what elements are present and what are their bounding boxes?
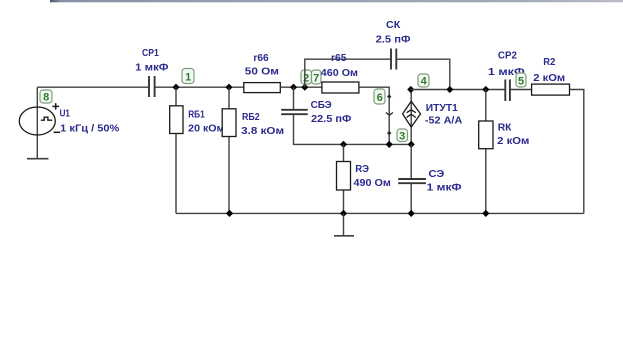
pin marker bottom (ИТУТ1 control)	[387, 131, 391, 136]
node 8 box	[40, 90, 52, 104]
capacitor СР2 plates	[505, 80, 510, 102]
svg-text:1: 1	[185, 71, 191, 83]
svg-text:2: 2	[303, 72, 309, 84]
svg-text:СР1: СР1	[142, 47, 159, 59]
wire: RБ1 branch vertical	[175, 87, 177, 213]
resistor RБ1	[170, 106, 183, 134]
svg-text:3: 3	[399, 130, 405, 142]
junction rail RБ2 dot	[226, 210, 233, 217]
svg-text:СЭ: СЭ	[429, 168, 445, 180]
svg-text:3.8 кОм: 3.8 кОм	[241, 125, 284, 137]
junction СБЭ tap dot	[290, 84, 297, 91]
svg-text:ИТУТ1: ИТУТ1	[426, 102, 458, 114]
wire: ИТУТ1 output vertical (through diamond)	[410, 90, 412, 145]
current source ИТУТ1 diamond	[403, 101, 421, 127]
capacitor СЭ plates	[398, 179, 426, 183]
svg-text:6: 6	[377, 92, 383, 104]
node 5 box	[516, 73, 526, 87]
junction feedback tap dot (node 2/7)	[301, 84, 308, 91]
svg-text:2 кОм: 2 кОм	[533, 72, 565, 84]
svg-text:СР2: СР2	[498, 50, 517, 62]
node 7 box	[312, 70, 322, 84]
wire: feedback branch right-down	[396, 59, 450, 89]
junction RК tap dot	[482, 86, 489, 93]
node 2 box	[301, 70, 312, 84]
svg-text:4: 4	[421, 76, 428, 88]
wire: RК branch vertical	[485, 90, 487, 214]
wire: СБЭ branch vertical (top)	[293, 87, 295, 110]
wire: r65 right to controlling branch corner	[359, 87, 389, 144]
wire: r66 right to r65 left	[280, 86, 322, 88]
junction emitter: diamond bottom dot	[408, 141, 415, 148]
svg-text:RБ1: RБ1	[188, 109, 205, 121]
capacitor СК plates	[391, 49, 396, 70]
wire: RЭ branch vertical	[343, 144, 345, 213]
wire: RБ2 branch vertical	[228, 87, 230, 213]
svg-text:7: 7	[313, 72, 319, 84]
ground (bottom rail)	[334, 235, 354, 237]
svg-text:СК: СК	[386, 19, 401, 31]
svg-text:R2: R2	[543, 56, 555, 68]
svg-text:2 кОм: 2 кОм	[497, 135, 529, 147]
svg-text:460 Ом: 460 Ом	[321, 67, 358, 79]
wire: U1 vertical through source to ground	[36, 87, 38, 159]
node 3 box	[397, 129, 408, 142]
junction node 4 dot	[407, 86, 414, 93]
node 6 box	[374, 89, 385, 104]
junction rail RК dot	[482, 210, 489, 217]
wire: bottom rail	[176, 212, 584, 214]
svg-text:1 кГц / 50%: 1 кГц / 50%	[60, 123, 120, 135]
ground (U1)	[27, 158, 49, 160]
svg-text:-52 А/А: -52 А/А	[425, 115, 463, 127]
wire: feedback branch up-left	[305, 59, 391, 87]
junction emitter: RЭ tap dot	[340, 141, 347, 148]
wire: ground stub	[343, 213, 345, 235]
wire: output right side down	[570, 90, 584, 214]
junction feedback right dot	[446, 86, 453, 93]
svg-text:СБЭ: СБЭ	[311, 99, 332, 111]
wire: СБЭ bottom to emitter rail	[294, 114, 412, 144]
resistor R2	[532, 84, 570, 95]
wire: CP1 right plate to r66 left	[155, 86, 244, 88]
svg-text:1 мкФ: 1 мкФ	[427, 182, 462, 194]
junction rail RЭ/ground dot	[340, 210, 347, 217]
ИТУТ1 control arrow (down chevron)	[386, 113, 393, 116]
node 1 box	[182, 69, 194, 84]
svg-text:20 кОм: 20 кОм	[188, 123, 224, 135]
node 4 box	[418, 74, 429, 88]
resistor RЭ	[337, 162, 351, 191]
source U1 body (ellipse)	[19, 107, 55, 135]
resistor RК	[479, 121, 493, 149]
wire: main rail right (node4 to СР2)	[411, 89, 506, 91]
resistor r66	[244, 83, 280, 93]
source U1 minus sign	[54, 131, 61, 133]
svg-text:50 Ом: 50 Ом	[245, 66, 279, 78]
wire: СЭ branch vertical	[410, 144, 412, 179]
resistor r65	[322, 82, 359, 93]
svg-text:1 мкФ: 1 мкФ	[135, 62, 168, 74]
svg-text:2.5 пФ: 2.5 пФ	[376, 33, 411, 45]
svg-text:RБ2: RБ2	[242, 111, 260, 123]
pin marker top (ИТУТ1 control)	[387, 94, 391, 99]
svg-text:r66: r66	[253, 52, 268, 64]
source U1 pulse waveform glyph	[41, 117, 52, 120]
ИТУТ1 arrow chevrons (up)	[407, 110, 416, 118]
top window border line	[50, 0, 623, 2]
svg-text:RК: RК	[498, 121, 512, 133]
junction node 1 dot	[172, 84, 179, 91]
wire: СЭ bottom to rail	[410, 183, 412, 213]
source U1 plus sign	[52, 103, 59, 109]
junction emitter: control branch bottom dot	[386, 141, 393, 148]
resistor RБ2	[222, 109, 236, 137]
svg-text:5: 5	[518, 75, 524, 87]
svg-text:490 Ом: 490 Ом	[354, 177, 392, 189]
capacitor СБЭ plates	[281, 110, 308, 114]
svg-text:U1: U1	[60, 108, 70, 120]
capacitor CP1 plates	[149, 76, 155, 97]
junction RБ2 top dot	[225, 84, 232, 91]
svg-text:8: 8	[43, 92, 49, 104]
svg-text:22.5 пФ: 22.5 пФ	[311, 113, 351, 125]
svg-text:r65: r65	[331, 52, 347, 64]
svg-text:RЭ: RЭ	[355, 163, 369, 175]
wire: СР2 to R2	[510, 89, 532, 91]
junction rail СЭ dot	[408, 210, 415, 217]
wire: U1 top to CP1 left plate (main rail left)	[37, 86, 149, 88]
